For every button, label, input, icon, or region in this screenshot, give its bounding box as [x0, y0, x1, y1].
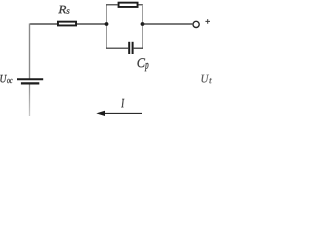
wire: loop top edge left of Rp [106, 4, 118, 6]
label c subscript (of Uoc) [10, 79, 13, 83]
label + polarity [205, 19, 210, 24]
capacitor Cp plate right [132, 42, 134, 54]
current arrow line [103, 112, 142, 114]
node: left junction dot [105, 22, 109, 26]
label s subscript (of Rs) [66, 9, 69, 13]
label R (of Rs) [58, 6, 66, 14]
wire: right junction to output terminal [143, 23, 193, 25]
label I current [121, 99, 124, 107]
node: right junction dot [141, 22, 145, 26]
wire: below battery (fading) [29, 85, 31, 117]
label t subscript (of Ut) [209, 78, 212, 83]
label o subscript (of Uoc) [7, 79, 10, 83]
label C (of Cp) [138, 58, 146, 67]
voltage source Uoc: battery short plate [21, 82, 39, 84]
wire: loop top edge right of Rp [139, 4, 144, 6]
wire: loop bottom edge left of Cp [106, 47, 128, 49]
label U (of Uoc) [0, 75, 7, 83]
wire: top-left corner horizontal to Rs [30, 23, 58, 25]
wire: loop bottom edge right of Cp [134, 47, 143, 49]
wire: Rs to parallel block [77, 23, 107, 25]
wire: parallel loop right vertical [142, 5, 144, 48]
resistor Rs [58, 22, 76, 26]
capacitor Cp plate left [128, 42, 130, 54]
terminal: open circle output [193, 21, 199, 27]
wire: left vertical down to battery [29, 24, 31, 79]
resistor Rp (unlabeled, top of parallel loop) [119, 3, 138, 7]
voltage source Uoc: battery long plate [17, 78, 43, 80]
label p subscript (of Cp) [145, 63, 149, 71]
wire: parallel loop left vertical [106, 5, 108, 48]
current arrow head [96, 111, 105, 116]
label U (of Ut) [202, 75, 210, 83]
